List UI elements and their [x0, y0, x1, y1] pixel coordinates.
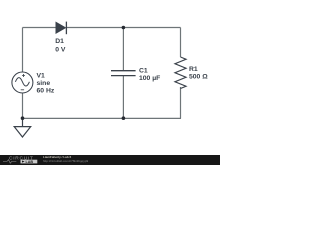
- wire: left vertical lower: [22, 93, 24, 118]
- svg-text:60 Hz: 60 Hz: [37, 88, 55, 95]
- node junction top (cap/top rail): [122, 26, 126, 30]
- wire: right vertical upper: [180, 28, 182, 58]
- svg-text:R1: R1: [189, 66, 198, 73]
- wire: left vertical upper: [22, 28, 24, 73]
- svg-text:D1: D1: [55, 38, 64, 45]
- wire: right vertical lower: [180, 87, 182, 118]
- svg-text:http://circuitlab.com/c76lv2bg: http://circuitlab.com/c76lv2bgqyp9: [43, 159, 89, 163]
- capacitor C1: [111, 71, 136, 76]
- wire: capacitor branch lower: [122, 76, 124, 119]
- svg-text:LAB: LAB: [26, 160, 34, 164]
- node junction bottom-left (ground): [21, 116, 25, 120]
- node junction bottom (cap/bottom rail): [122, 116, 126, 120]
- resistor R1: [175, 57, 186, 89]
- svg-text:100 µF: 100 µF: [139, 75, 160, 82]
- diode D1: [56, 22, 66, 35]
- ground: [14, 118, 31, 137]
- wire: top rail right segment: [67, 27, 181, 29]
- wire: capacitor branch upper: [122, 28, 124, 71]
- wire: top rail left segment: [23, 27, 57, 29]
- svg-text:0 V: 0 V: [55, 47, 66, 54]
- footer logo CIRCUIT LAB: [3, 156, 37, 164]
- wire: bottom rail: [23, 117, 182, 119]
- voltage source V1: [12, 72, 33, 93]
- svg-text:sine: sine: [37, 80, 51, 87]
- svg-text:500 Ω: 500 Ω: [189, 74, 208, 81]
- footer banner: [0, 155, 220, 166]
- svg-text:V1: V1: [37, 73, 46, 80]
- svg-text:C1: C1: [139, 68, 148, 75]
